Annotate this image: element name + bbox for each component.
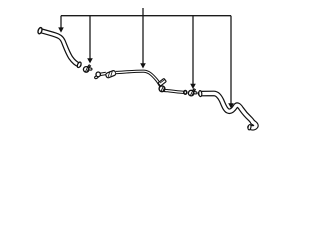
arrowhead 5 bbox=[228, 103, 234, 108]
pipe left end tail bbox=[94, 75, 98, 79]
leader horizontal line bbox=[61, 15, 231, 17]
pipe tube bbox=[116, 71, 184, 92]
arrowhead 2 bbox=[87, 58, 93, 63]
hose 2 right end opening bbox=[248, 124, 252, 130]
pipe left neck bbox=[100, 73, 106, 74]
pipe clip loop bbox=[159, 86, 165, 92]
arrowhead 4 bbox=[190, 84, 196, 89]
clamp C1 tab bbox=[88, 68, 92, 71]
clamp C2 tab bbox=[193, 91, 197, 94]
pipe fitting nut bbox=[105, 70, 116, 78]
hose 1 upper end opening bbox=[37, 27, 43, 34]
clamp C1 bbox=[83, 65, 92, 73]
leader drop 5 bbox=[230, 16, 232, 104]
leader stem up bbox=[142, 8, 144, 16]
clamp C2 bbox=[188, 88, 197, 95]
pipe bracket clip bbox=[158, 78, 166, 86]
hose 1 lower end opening bbox=[77, 61, 82, 68]
pipe right end cap bbox=[184, 91, 187, 95]
leader drop 2 bbox=[89, 16, 91, 59]
leader drop 1 bbox=[60, 16, 62, 28]
leader drop 4 bbox=[192, 16, 194, 85]
leader drop 3 bbox=[142, 16, 144, 64]
hose 1 (left water hose) bbox=[37, 27, 82, 68]
hose 2 (right water hose) bbox=[198, 90, 255, 130]
arrowhead 3 bbox=[140, 63, 146, 68]
pipe left end ring bbox=[96, 72, 100, 77]
arrowhead 1 bbox=[58, 27, 64, 32]
hose 2 left end opening bbox=[198, 90, 202, 96]
pipe assembly (middle) bbox=[94, 70, 187, 94]
